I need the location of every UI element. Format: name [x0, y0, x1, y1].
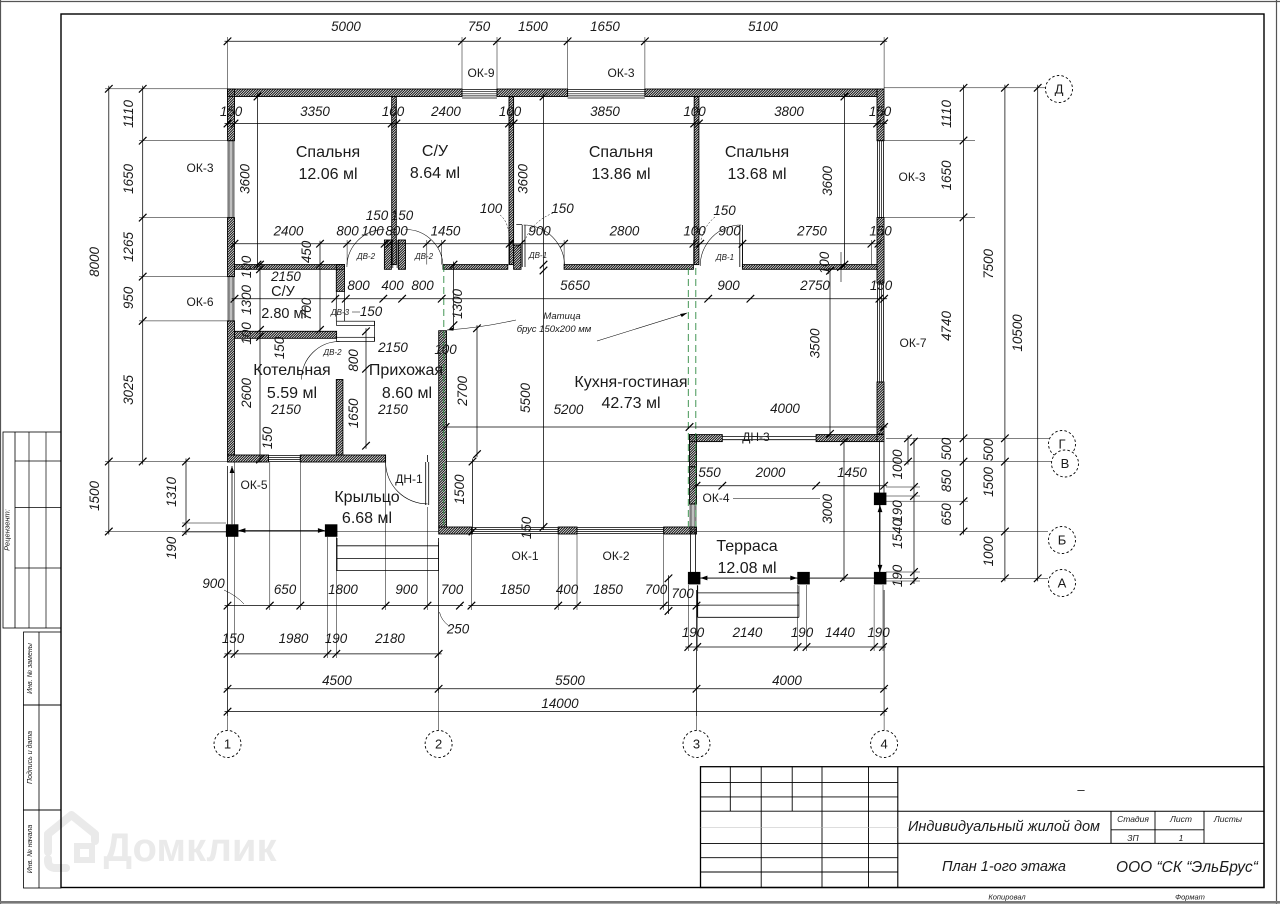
svg-text:Прихожая: Прихожая — [369, 362, 443, 379]
svg-text:150: 150 — [391, 208, 414, 223]
svg-text:6.68 мl: 6.68 мl — [342, 510, 392, 527]
svg-text:800: 800 — [346, 349, 361, 372]
svg-text:ОК-1: ОК-1 — [512, 549, 539, 563]
svg-text:150: 150 — [360, 304, 383, 319]
svg-text:1800: 1800 — [328, 582, 358, 597]
svg-text:ДН-1: ДН-1 — [395, 472, 423, 486]
svg-text:2700: 2700 — [455, 376, 470, 407]
svg-text:2180: 2180 — [374, 631, 405, 646]
svg-text:3000: 3000 — [820, 494, 835, 524]
svg-text:100: 100 — [683, 224, 706, 239]
svg-text:А: А — [1058, 576, 1067, 591]
svg-text:Формат: Формат — [1175, 893, 1205, 902]
svg-text:7500: 7500 — [981, 249, 996, 279]
svg-text:5500: 5500 — [555, 673, 585, 688]
svg-text:План 1-ого этажа: План 1-ого этажа — [942, 859, 1066, 875]
svg-text:2150: 2150 — [270, 402, 301, 417]
svg-text:500: 500 — [981, 438, 996, 461]
svg-text:Б: Б — [1058, 533, 1067, 548]
svg-text:Стадия: Стадия — [1117, 814, 1149, 824]
svg-text:100: 100 — [239, 322, 254, 345]
svg-text:400: 400 — [556, 582, 579, 597]
svg-text:2150: 2150 — [377, 402, 408, 417]
svg-text:190: 190 — [867, 625, 890, 640]
svg-text:100: 100 — [382, 104, 405, 119]
svg-text:3350: 3350 — [300, 104, 330, 119]
svg-text:950: 950 — [121, 286, 136, 309]
svg-text:1500: 1500 — [981, 467, 996, 497]
svg-text:1: 1 — [1179, 833, 1184, 843]
svg-text:550: 550 — [698, 465, 721, 480]
svg-text:Крыльцо: Крыльцо — [334, 489, 399, 506]
svg-text:650: 650 — [274, 582, 297, 597]
svg-text:В: В — [1061, 456, 1070, 471]
svg-text:150: 150 — [366, 208, 389, 223]
svg-text:150: 150 — [869, 224, 892, 239]
svg-text:Инв. № замены: Инв. № замены — [27, 642, 34, 694]
svg-text:2140: 2140 — [732, 625, 763, 640]
svg-text:450: 450 — [299, 240, 314, 263]
svg-text:190: 190 — [682, 625, 705, 640]
svg-text:1450: 1450 — [837, 465, 867, 480]
svg-text:1540: 1540 — [890, 519, 905, 549]
svg-text:5650: 5650 — [560, 278, 590, 293]
svg-text:1500: 1500 — [87, 481, 102, 511]
svg-text:ОК-2: ОК-2 — [603, 549, 630, 563]
svg-text:1500: 1500 — [518, 19, 548, 34]
svg-text:ДН-3: ДН-3 — [742, 430, 770, 444]
svg-text:800: 800 — [411, 278, 434, 293]
svg-text:С/У: С/У — [271, 284, 296, 300]
svg-text:900: 900 — [718, 224, 741, 239]
svg-text:400: 400 — [381, 278, 404, 293]
svg-text:5000: 5000 — [331, 19, 361, 34]
svg-text:ОК-9: ОК-9 — [468, 66, 495, 80]
svg-text:150: 150 — [551, 201, 574, 216]
svg-text:ОК-6: ОК-6 — [187, 295, 214, 309]
svg-text:–: – — [1077, 782, 1085, 797]
svg-text:ОК-5: ОК-5 — [241, 478, 268, 492]
svg-text:5200: 5200 — [554, 402, 584, 417]
svg-text:Домклик: Домклик — [103, 826, 277, 870]
svg-text:8000: 8000 — [87, 247, 102, 277]
svg-text:150: 150 — [713, 203, 736, 218]
svg-text:Подпись и дата: Подпись и дата — [26, 731, 34, 784]
svg-text:3600: 3600 — [820, 166, 835, 196]
svg-text:800: 800 — [347, 278, 370, 293]
svg-text:100: 100 — [683, 104, 706, 119]
svg-text:С/У: С/У — [422, 143, 449, 160]
svg-text:800: 800 — [336, 224, 359, 239]
svg-text:ОК-3: ОК-3 — [187, 161, 214, 175]
svg-text:1265: 1265 — [121, 232, 136, 262]
svg-text:4: 4 — [880, 737, 887, 752]
svg-text:ДВ-2: ДВ-2 — [322, 348, 342, 357]
svg-text:1310: 1310 — [164, 477, 179, 507]
svg-text:150: 150 — [870, 278, 893, 293]
svg-text:ДВ-2: ДВ-2 — [414, 252, 434, 261]
svg-text:2000: 2000 — [755, 465, 786, 480]
svg-text:3800: 3800 — [774, 104, 804, 119]
svg-text:ОК-3: ОК-3 — [608, 66, 635, 80]
svg-text:2150: 2150 — [377, 340, 408, 355]
svg-text:Котельная: Котельная — [253, 362, 330, 379]
svg-text:5500: 5500 — [518, 383, 533, 413]
svg-text:700: 700 — [441, 582, 464, 597]
svg-text:4000: 4000 — [770, 401, 800, 416]
svg-text:3850: 3850 — [590, 104, 620, 119]
svg-text:100: 100 — [239, 255, 254, 278]
svg-text:1850: 1850 — [500, 582, 530, 597]
svg-text:12.08 мl: 12.08 мl — [717, 560, 776, 577]
svg-text:900: 900 — [395, 582, 418, 597]
svg-text:5100: 5100 — [748, 19, 778, 34]
svg-text:1000: 1000 — [890, 449, 905, 479]
svg-text:3025: 3025 — [121, 375, 136, 405]
svg-text:850: 850 — [939, 469, 954, 492]
svg-text:1650: 1650 — [121, 164, 136, 194]
svg-text:4740: 4740 — [939, 311, 954, 341]
svg-text:900: 900 — [528, 224, 551, 239]
svg-text:брус 150х200 мм: брус 150х200 мм — [517, 324, 592, 335]
svg-text:150: 150 — [519, 516, 534, 539]
svg-text:2750: 2750 — [796, 224, 827, 239]
svg-text:150: 150 — [869, 104, 892, 119]
svg-text:Г: Г — [1058, 437, 1065, 452]
svg-text:Копировал: Копировал — [988, 893, 1026, 902]
svg-text:700: 700 — [671, 586, 694, 601]
svg-text:Кухня-гостиная: Кухня-гостиная — [574, 374, 687, 391]
svg-text:8.64 мl: 8.64 мl — [410, 165, 460, 182]
svg-text:1650: 1650 — [590, 19, 620, 34]
svg-text:100: 100 — [480, 201, 503, 216]
svg-text:1440: 1440 — [825, 625, 855, 640]
svg-text:1110: 1110 — [939, 100, 954, 128]
svg-text:ООО “СК “ЭльБрус“: ООО “СК “ЭльБрус“ — [1116, 859, 1259, 876]
svg-text:13.68 мl: 13.68 мl — [727, 166, 786, 183]
svg-text:3600: 3600 — [238, 164, 253, 194]
svg-text:250: 250 — [446, 622, 470, 637]
svg-text:2400: 2400 — [430, 104, 461, 119]
svg-text:1850: 1850 — [593, 582, 623, 597]
svg-text:1110: 1110 — [121, 100, 136, 128]
svg-text:2600: 2600 — [239, 378, 254, 409]
svg-text:150: 150 — [220, 104, 243, 119]
svg-text:Лист: Лист — [1169, 814, 1192, 824]
svg-text:1650: 1650 — [939, 160, 954, 190]
svg-text:800: 800 — [385, 224, 408, 239]
svg-text:1450: 1450 — [431, 224, 461, 239]
svg-text:190: 190 — [890, 564, 905, 587]
svg-text:3600: 3600 — [516, 164, 531, 194]
svg-text:4500: 4500 — [322, 673, 352, 688]
svg-text:2.80 мl: 2.80 мl — [261, 306, 306, 322]
svg-text:100: 100 — [817, 251, 832, 274]
svg-text:3: 3 — [693, 737, 700, 752]
svg-text:100: 100 — [361, 224, 384, 239]
svg-text:ДВ-1: ДВ-1 — [715, 253, 734, 262]
svg-text:8.60 мl: 8.60 мl — [382, 385, 432, 402]
svg-text:900: 900 — [202, 576, 225, 591]
svg-text:150: 150 — [222, 631, 245, 646]
svg-text:ДВ-2: ДВ-2 — [356, 252, 376, 261]
svg-text:4000: 4000 — [772, 673, 802, 688]
svg-text:Матица: Матица — [543, 311, 580, 322]
svg-text:100: 100 — [499, 104, 522, 119]
svg-text:100: 100 — [434, 342, 457, 357]
svg-text:2150: 2150 — [270, 269, 301, 284]
svg-text:ДВ-3: ДВ-3 — [330, 308, 350, 317]
svg-text:1650: 1650 — [346, 398, 361, 428]
svg-text:ДВ-1: ДВ-1 — [528, 251, 547, 260]
svg-text:900: 900 — [717, 278, 740, 293]
svg-text:Индивидуальный жилой дом: Индивидуальный жилой дом — [908, 819, 1100, 835]
svg-text:Листы: Листы — [1213, 814, 1243, 824]
svg-text:13.86 мl: 13.86 мl — [591, 166, 650, 183]
svg-text:2750: 2750 — [799, 278, 830, 293]
svg-text:Спальня: Спальня — [725, 144, 789, 161]
svg-text:Спальня: Спальня — [589, 144, 653, 161]
svg-text:500: 500 — [939, 437, 954, 460]
svg-text:700: 700 — [645, 582, 668, 597]
svg-text:1000: 1000 — [981, 536, 996, 566]
svg-text:2800: 2800 — [609, 224, 640, 239]
svg-text:1980: 1980 — [279, 631, 309, 646]
svg-text:14000: 14000 — [541, 696, 579, 711]
svg-text:12.06 мl: 12.06 мl — [298, 166, 357, 183]
svg-text:2: 2 — [435, 737, 442, 752]
svg-text:1300: 1300 — [239, 285, 254, 315]
svg-text:1: 1 — [224, 737, 231, 752]
svg-text:190: 190 — [791, 625, 814, 640]
svg-text:190: 190 — [164, 536, 179, 559]
svg-text:1500: 1500 — [452, 474, 467, 504]
svg-text:ЗП: ЗП — [1127, 833, 1139, 843]
svg-text:1300: 1300 — [450, 289, 465, 319]
svg-text:ОК-3: ОК-3 — [899, 170, 926, 184]
svg-text:2400: 2400 — [273, 224, 304, 239]
svg-text:650: 650 — [939, 503, 954, 526]
svg-text:10500: 10500 — [1010, 314, 1025, 352]
svg-text:150: 150 — [272, 336, 287, 359]
svg-text:Спальня: Спальня — [296, 144, 360, 161]
svg-text:Д: Д — [1055, 82, 1064, 97]
svg-text:150: 150 — [260, 426, 275, 449]
svg-text:3500: 3500 — [808, 328, 823, 358]
svg-text:42.73 мl: 42.73 мl — [601, 395, 660, 412]
svg-text:Рецензент:: Рецензент: — [3, 509, 12, 551]
svg-text:5.59 мl: 5.59 мl — [267, 385, 317, 402]
svg-text:ОК-7: ОК-7 — [900, 336, 927, 350]
svg-text:ОК-4: ОК-4 — [703, 491, 730, 505]
svg-text:Инв. № начала: Инв. № начала — [27, 825, 34, 874]
svg-text:Терраса: Терраса — [716, 538, 777, 555]
svg-text:750: 750 — [468, 19, 491, 34]
